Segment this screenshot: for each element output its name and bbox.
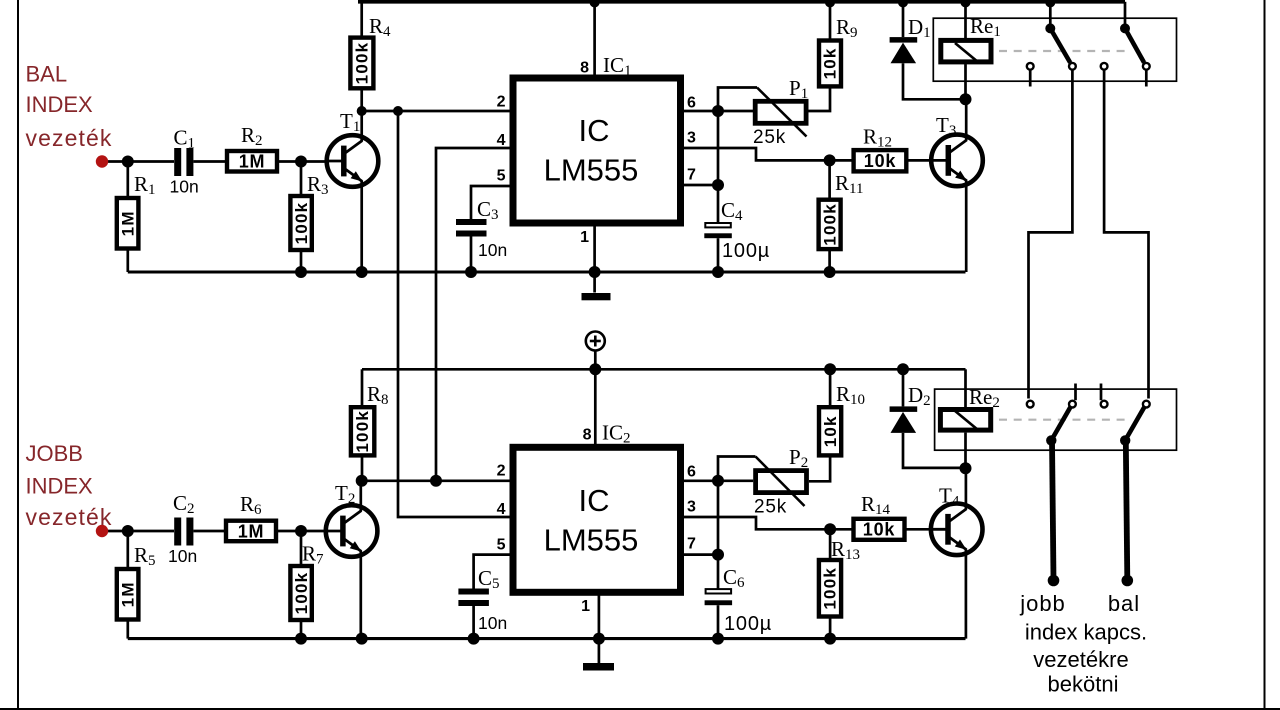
resistor R10 bbox=[829, 369, 832, 405]
node IC1 pin1 bbox=[589, 266, 601, 278]
frame right bbox=[1264, 0, 1266, 710]
node C3 bottom bbox=[465, 266, 477, 278]
wire T2 collector to IC2 pin 2 bbox=[362, 479, 510, 482]
contact circle 1a bbox=[1027, 63, 1034, 70]
resistor R11 bbox=[828, 160, 831, 199]
node R11 bottom bbox=[824, 266, 836, 278]
resistor R6 bbox=[226, 521, 276, 542]
svg-text:10n: 10n bbox=[478, 613, 507, 633]
pin 6 IC2 wire bbox=[684, 479, 753, 482]
wire T4 collector up bbox=[965, 468, 968, 509]
svg-text:INDEX: INDEX bbox=[26, 474, 94, 499]
svg-text:JOBB: JOBB bbox=[26, 441, 83, 466]
capacitor C6 electrolytic bbox=[706, 589, 732, 593]
stub contact 1a bbox=[1029, 71, 1032, 87]
stub contact 1d bbox=[1145, 71, 1148, 87]
wire input to C1 bbox=[102, 160, 174, 163]
stub above contact 2c bbox=[1100, 384, 1103, 401]
svg-text:100k: 100k bbox=[353, 42, 372, 85]
wire T2 emitter down bbox=[359, 551, 362, 639]
svg-text:BAL: BAL bbox=[26, 62, 68, 87]
wire supply to IC2 pin 8 bbox=[594, 351, 597, 448]
pin 6 IC1 wire bbox=[684, 110, 754, 113]
node R1 top bbox=[122, 156, 134, 168]
wire cross-link A down to IC2 pin 4 bbox=[398, 111, 510, 517]
capacitor C4 electrolytic bbox=[705, 223, 731, 227]
svg-text:LM555: LM555 bbox=[544, 153, 639, 188]
svg-text:8: 8 bbox=[580, 60, 589, 77]
op IC2 box bbox=[513, 447, 681, 592]
pin 1 IC1 wire bbox=[593, 226, 596, 293]
dashed coupling line 1 bbox=[999, 50, 1128, 52]
svg-text:bekötni: bekötni bbox=[1048, 672, 1119, 697]
op IC1 box bbox=[513, 78, 681, 223]
wire T4 emitter down bbox=[965, 549, 968, 638]
node pin7 bbox=[712, 179, 724, 191]
svg-text:6: 6 bbox=[687, 464, 696, 481]
svg-text:100k: 100k bbox=[292, 572, 311, 615]
switch arm 1b bbox=[1125, 28, 1144, 62]
red input terminal JOBB bbox=[96, 525, 108, 537]
ground rail top half bbox=[128, 270, 966, 273]
svg-text:vezeték: vezeték bbox=[26, 125, 113, 151]
svg-text:25k: 25k bbox=[753, 127, 786, 148]
node T1 emitter bbox=[356, 266, 368, 278]
wire rail to R4 bbox=[360, 2, 363, 36]
wire T1 emitter to ground rail bbox=[360, 181, 363, 272]
wire pin6 node down to C4 bbox=[717, 111, 720, 222]
wire T1 collector node to IC1 pin 2 bbox=[362, 110, 510, 113]
svg-text:100k: 100k bbox=[292, 202, 311, 245]
svg-text:IC: IC bbox=[579, 483, 610, 518]
resistor R5 bbox=[126, 531, 129, 567]
svg-text:2: 2 bbox=[497, 463, 506, 480]
node D2 on mid rail bbox=[897, 363, 909, 375]
ground rail bottom half bbox=[128, 637, 966, 640]
svg-text:4: 4 bbox=[497, 132, 506, 149]
wire R2 to T1 base bbox=[279, 160, 345, 163]
pin 1 IC2 wire bbox=[598, 596, 601, 664]
svg-text:7: 7 bbox=[687, 167, 696, 184]
node pin6/C6 branch bbox=[712, 475, 724, 487]
wire R9 to P1 right bbox=[808, 86, 830, 111]
node D1/T3/Re1 bbox=[960, 93, 972, 105]
node R13 bottom bbox=[824, 633, 836, 645]
potentiometer P1 bbox=[755, 101, 806, 123]
node IC2 pin1 bbox=[593, 633, 605, 645]
contact circle 1c bbox=[1101, 63, 1108, 70]
node R7 top bbox=[295, 525, 307, 537]
svg-text:INDEX: INDEX bbox=[26, 92, 94, 117]
relay coil Re1 bbox=[964, 2, 967, 40]
wire relay1 contact to relay2 right bbox=[1104, 71, 1148, 399]
svg-text:25k: 25k bbox=[754, 497, 787, 518]
switch arm 2a bbox=[1051, 407, 1070, 440]
svg-text:100k: 100k bbox=[821, 567, 840, 610]
resistor R12 bbox=[854, 150, 907, 171]
supply rail top (+V) bbox=[358, 0, 1125, 4]
ground symbol bottom bbox=[583, 663, 614, 671]
svg-text:100k: 100k bbox=[820, 203, 839, 246]
node R3 top bbox=[295, 156, 307, 168]
svg-text:3: 3 bbox=[687, 130, 696, 147]
node pin6/C4 branch bbox=[712, 105, 724, 117]
wire R8 to T2 collector node bbox=[361, 455, 364, 480]
node R7 bottom bbox=[295, 633, 307, 645]
red input terminal BAL bbox=[96, 155, 108, 167]
node cross-link B bottom bbox=[430, 475, 442, 487]
frame bottom bbox=[0, 708, 1280, 710]
contact circle 1d bbox=[1143, 63, 1150, 70]
supply symbol + bbox=[586, 332, 605, 351]
node: pin8 IC1 on rail bbox=[590, 0, 600, 8]
transistor T1 bbox=[327, 135, 379, 187]
svg-text:1: 1 bbox=[580, 229, 589, 246]
svg-text:1M: 1M bbox=[238, 521, 265, 541]
wire T3 emitter down bbox=[965, 180, 968, 272]
pin 3 IC2 wire bbox=[684, 517, 852, 529]
svg-text:vezetékre: vezetékre bbox=[1033, 647, 1128, 672]
svg-text:10k: 10k bbox=[821, 47, 840, 79]
svg-text:vezeték: vezeték bbox=[26, 504, 113, 530]
node R13 top bbox=[824, 523, 836, 535]
contact pivot wire 1 bbox=[1049, 3, 1052, 29]
resistor R7 bbox=[300, 531, 303, 566]
contact pivot wire 2 bbox=[1124, 2, 1127, 29]
wire R6 to T2 base bbox=[278, 530, 344, 533]
svg-text:4: 4 bbox=[497, 501, 506, 518]
contact circle 1b bbox=[1069, 63, 1076, 70]
switch arm 2b bbox=[1125, 407, 1144, 440]
pin 5 IC1 wire bbox=[471, 186, 510, 219]
pin 7 IC1 wire bbox=[684, 184, 718, 187]
pin 8 IC1 bbox=[593, 2, 596, 78]
transistor T3 bbox=[931, 135, 983, 187]
wire P1 wiper bbox=[718, 88, 757, 112]
svg-text:10n: 10n bbox=[170, 177, 199, 197]
node C4 bottom bbox=[712, 266, 724, 278]
wire T2 collector diag up bbox=[359, 481, 362, 511]
capacitor C5 bbox=[458, 589, 489, 595]
wire R12 to T3 base bbox=[908, 159, 950, 162]
diode D2 bbox=[902, 369, 905, 406]
wire C1 to R2 bbox=[193, 160, 227, 163]
pin 5 IC2 wire bbox=[474, 555, 510, 589]
wire P2 wiper bbox=[718, 457, 756, 481]
svg-text:100µ: 100µ bbox=[724, 613, 772, 635]
node D2/T4/Re2 bbox=[960, 462, 972, 474]
svg-text:10n: 10n bbox=[168, 546, 197, 566]
svg-text:8: 8 bbox=[583, 427, 592, 444]
svg-text:jobb: jobb bbox=[1019, 591, 1066, 616]
capacitor C3 bbox=[456, 219, 487, 225]
wire T1 collector bbox=[360, 111, 363, 141]
transistor T2 bbox=[326, 505, 378, 557]
wire R10 to P2 right bbox=[809, 455, 830, 481]
wire R4 to T1 collector node bbox=[360, 90, 363, 111]
pin 3 IC1 wire bbox=[684, 148, 852, 160]
capacitor C2 bbox=[174, 518, 181, 546]
node pin7 IC2 bbox=[712, 549, 724, 561]
svg-text:LM555: LM555 bbox=[544, 522, 639, 557]
svg-text:1M: 1M bbox=[239, 152, 266, 172]
svg-text:10n: 10n bbox=[478, 240, 507, 260]
svg-text:1M: 1M bbox=[119, 210, 138, 236]
wire C2 to R6 bbox=[193, 530, 226, 533]
ground symbol top bbox=[582, 293, 611, 300]
resistor R4 bbox=[350, 38, 373, 89]
node C6 bottom bbox=[712, 633, 724, 645]
svg-text:5: 5 bbox=[497, 537, 506, 554]
svg-text:index kapcs.: index kapcs. bbox=[1025, 620, 1147, 645]
capacitor C1 bbox=[174, 148, 181, 176]
contact circle 2a bbox=[1027, 401, 1034, 408]
svg-text:10k: 10k bbox=[864, 151, 897, 171]
svg-text:3: 3 bbox=[687, 499, 696, 516]
svg-text:10k: 10k bbox=[821, 415, 840, 447]
pin 7 IC2 wire bbox=[684, 553, 718, 556]
diode D1 bbox=[902, 2, 905, 37]
resistor R3 bbox=[300, 162, 303, 197]
relay coil Re2 bbox=[964, 369, 967, 407]
supply rail mid bbox=[362, 368, 966, 371]
contact circle 2d bbox=[1143, 401, 1150, 408]
frame left bbox=[17, 0, 19, 710]
node R3 bottom bbox=[295, 266, 307, 278]
contact circle 2b bbox=[1069, 401, 1076, 408]
pin 4 IC1 wire from cross-link B bbox=[436, 148, 510, 481]
node T2 emitter bbox=[356, 633, 368, 645]
wire relay1 contact to relay2 left bbox=[1029, 71, 1073, 399]
node R10 on mid rail bbox=[824, 363, 836, 375]
node cross-link A bbox=[393, 106, 403, 116]
potentiometer P2 bbox=[756, 471, 807, 493]
node T2 collector bbox=[356, 475, 368, 487]
node: R9 on rail bbox=[825, 0, 835, 8]
relay contact box 2 bbox=[935, 389, 1177, 450]
svg-text:100k: 100k bbox=[353, 410, 372, 453]
node R5 top bbox=[122, 525, 134, 537]
node: D1 on rail bbox=[898, 0, 908, 8]
node C5 bottom bbox=[468, 633, 480, 645]
resistor R13 bbox=[829, 529, 832, 559]
node R11 top bbox=[824, 154, 836, 166]
thick lead jobb bbox=[1052, 440, 1054, 579]
node supply/pin8 bbox=[589, 363, 601, 375]
relay contact box 1 bbox=[933, 18, 1176, 81]
wire input to C2 bbox=[102, 530, 174, 533]
contact circle 2c bbox=[1101, 401, 1108, 408]
wire T3 collector up bbox=[965, 99, 968, 140]
resistor R2 bbox=[227, 151, 277, 172]
dashed coupling line 2 bbox=[999, 419, 1131, 421]
stub above contact 2b bbox=[1074, 384, 1077, 401]
svg-text:1: 1 bbox=[581, 598, 590, 615]
switch arm 1a bbox=[1050, 28, 1070, 62]
resistor R14 bbox=[854, 519, 905, 540]
svg-text:5: 5 bbox=[497, 168, 506, 185]
resistor R9 bbox=[829, 2, 832, 39]
svg-text:IC: IC bbox=[579, 113, 610, 148]
thick lead bal bbox=[1126, 440, 1128, 579]
resistor R8 bbox=[361, 369, 364, 405]
svg-text:1M: 1M bbox=[119, 581, 138, 607]
node: relay contact 1 feed on rail bbox=[1045, 0, 1055, 8]
resistor R1 bbox=[126, 162, 129, 197]
transistor T4 bbox=[931, 504, 983, 556]
svg-text:bal: bal bbox=[1108, 591, 1140, 616]
svg-text:7: 7 bbox=[687, 536, 696, 553]
node T1 collector / pin2 bbox=[357, 106, 367, 116]
svg-text:10k: 10k bbox=[863, 520, 896, 540]
svg-text:2: 2 bbox=[497, 94, 506, 111]
node: Re1 coil on rail bbox=[961, 0, 971, 8]
svg-text:100µ: 100µ bbox=[722, 240, 770, 262]
wire pin6 node down to C6 bbox=[717, 481, 720, 589]
wire R14 to T4 base bbox=[907, 528, 950, 531]
svg-text:6: 6 bbox=[687, 95, 696, 112]
